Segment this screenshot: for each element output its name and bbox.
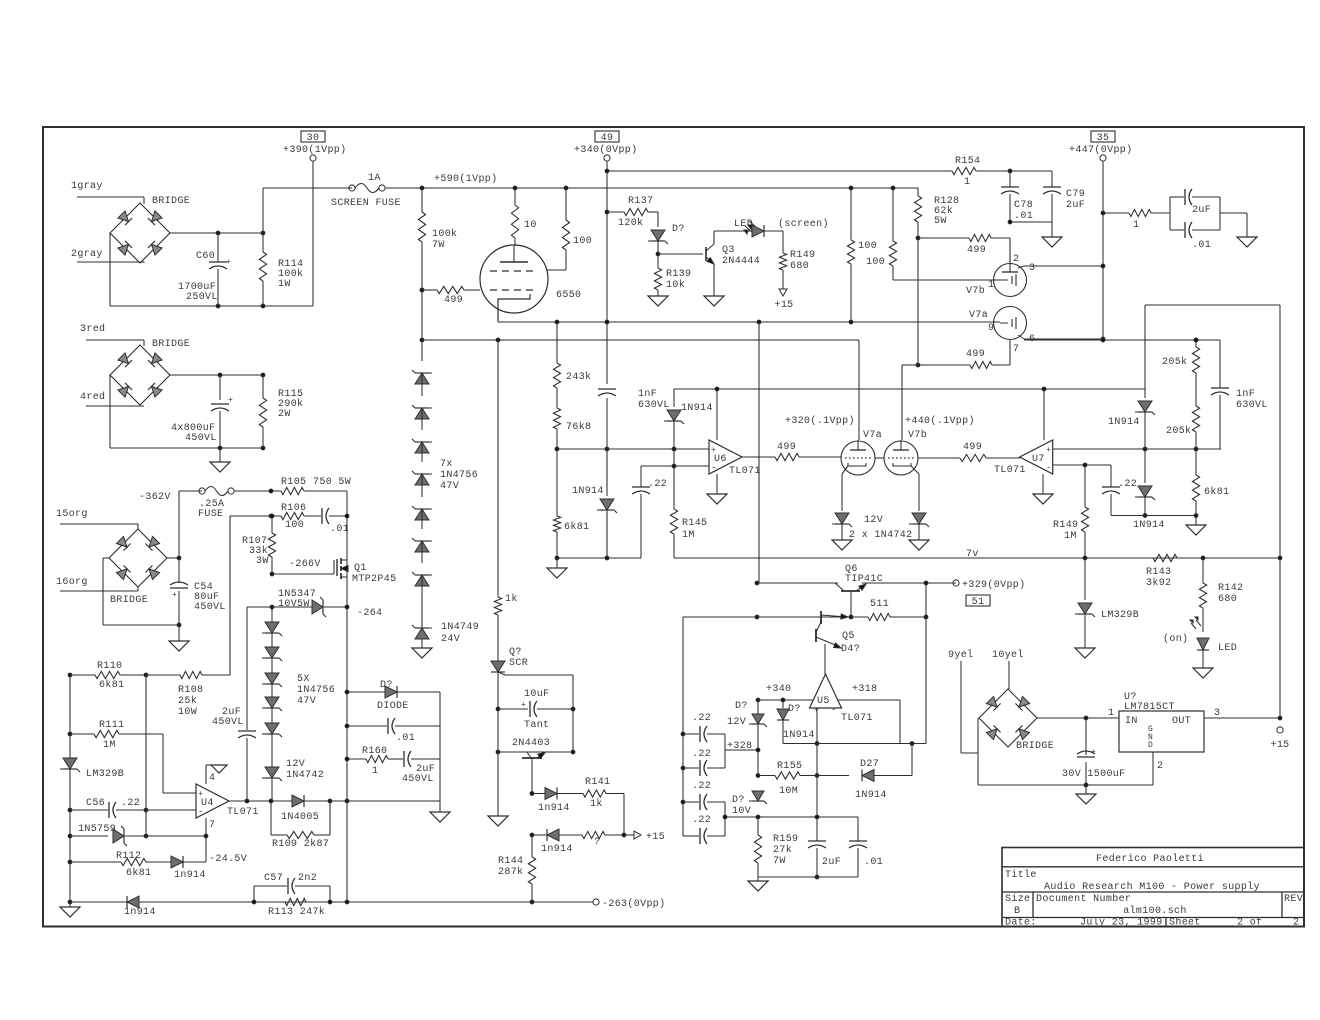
wire heater mid [875,457,884,459]
svg-text:750 5W: 750 5W [313,477,351,488]
resistor R142 680 [1201,556,1205,560]
svg-text:-: - [1046,463,1052,473]
wire bridge1 out [170,232,263,234]
wire +590 feed [263,187,352,189]
svg-text:7: 7 [209,820,215,831]
svg-text:LM329B: LM329B [86,769,124,780]
svg-text:+: + [711,446,716,455]
svg-text:R113 247k: R113 247k [268,906,325,918]
svg-text:9: 9 [988,323,994,334]
svg-text:-24.5V: -24.5V [209,854,247,865]
wire 2uF450 column [246,607,248,730]
svg-text:12V: 12V [864,515,883,526]
svg-text:+590(1Vpp): +590(1Vpp) [434,173,498,185]
svg-text:47V: 47V [297,696,316,707]
wire R141 row [530,792,534,796]
svg-text:R159: R159 [773,834,798,845]
svg-text:R141: R141 [585,777,610,788]
svg-text:.22: .22 [1118,479,1137,490]
wire +590 rail [385,187,918,189]
svg-text:630VL: 630VL [638,400,670,411]
resistor R139 10k [657,254,659,268]
wire +340 vertical [606,161,608,384]
svg-text:+318: +318 [852,684,877,695]
svg-text:BRIDGE: BRIDGE [110,595,148,606]
svg-text:243k: 243k [566,371,591,383]
capacitor C? 4x800uF 450VL [219,375,221,400]
wire box right rail [439,692,441,801]
capacitor 2uF (R159) [816,817,818,841]
svg-text:D?: D? [672,224,685,235]
wire U6 feedback top [674,388,1145,390]
wire 1k SCR column [497,340,499,597]
svg-text:C56: C56 [86,798,105,809]
wire x573 drop [572,709,574,752]
svg-text:.22: .22 [692,815,711,826]
svg-text:499: 499 [777,442,796,453]
svg-text:100: 100 [858,241,877,252]
svg-text:Size: Size [1005,893,1030,905]
svg-text:27k: 27k [773,844,792,856]
svg-text:10uF: 10uF [524,689,549,700]
svg-text:MTP2P45: MTP2P45 [352,574,396,585]
ground bottom left [69,902,71,907]
svg-text:51: 51 [972,597,985,608]
svg-text:1n914: 1n914 [174,870,206,881]
svg-text:-: - [831,705,837,715]
wire -266V gate [270,572,274,576]
svg-text:D?: D? [788,704,801,715]
wire U4 out to box [330,800,440,802]
svg-text:1N4756: 1N4756 [440,470,478,481]
svg-text:450VL: 450VL [194,602,226,613]
wire x347 long drop [346,607,348,902]
terminal -263(0Vpp) [345,900,349,904]
wire x926 drop2 [925,617,927,744]
op-amp U6 TL071 [709,440,742,474]
svg-text:D4?: D4? [841,644,860,655]
wire 10V row [725,816,858,818]
svg-text:.01: .01 [1192,240,1211,251]
wire U6 - input [641,465,709,467]
svg-text:BRIDGE: BRIDGE [1016,741,1054,752]
svg-text:.01: .01 [864,857,883,868]
ground C78/C79 [1042,237,1062,247]
svg-text:16org: 16org [56,577,88,588]
wire grid rail y340 [422,339,859,341]
ground Q3 [704,296,724,306]
ground V7a cathode [832,540,852,550]
svg-text:R110: R110 [97,661,122,672]
svg-text:R109 2k87: R109 2k87 [272,838,329,850]
wire +340 row [756,698,760,702]
svg-text:1N4756: 1N4756 [297,685,335,696]
resistor 499 (U6 out) [742,456,775,458]
svg-text:.01: .01 [1014,211,1033,222]
svg-text:6k81: 6k81 [99,679,124,691]
svg-text:V7a: V7a [863,430,882,441]
svg-text:TL071: TL071 [227,807,259,818]
svg-text:30: 30 [307,133,320,144]
ground LED [1193,668,1213,678]
op-amp U5 TL071 [810,674,842,708]
svg-text:3red: 3red [80,323,105,335]
svg-text:R160: R160 [362,746,387,757]
ground C54 [178,625,180,641]
svg-text:C60: C60 [196,251,215,262]
svg-text:+447(0Vpp): +447(0Vpp) [1069,144,1133,156]
net label 51 [966,595,990,606]
svg-text:LED: LED [1218,643,1237,654]
svg-text:D?: D? [735,701,748,712]
svg-text:R155: R155 [777,761,802,772]
svg-text:3k92: 3k92 [1146,577,1171,589]
svg-text:10yel: 10yel [992,649,1024,661]
svg-text:680: 680 [1218,594,1237,605]
svg-text:+15: +15 [774,300,793,311]
svg-text:FUSE: FUSE [198,509,223,520]
wire 7v left segment [557,557,641,559]
svg-text:1M: 1M [1064,531,1077,542]
wire y515 row [1111,515,1196,517]
svg-text:Federico Paoletti: Federico Paoletti [1096,853,1204,865]
svg-text:+320(.1Vpp): +320(.1Vpp) [785,415,855,427]
wire bridge4 neg rail [977,753,979,785]
wire R106 row [229,516,231,675]
wire pin2 V7b [1009,238,1011,262]
svg-text:100: 100 [573,236,592,247]
svg-text:+: + [226,258,231,267]
svg-text:6k81: 6k81 [1204,486,1229,498]
svg-text:6550: 6550 [556,290,581,301]
wire U6 + row [557,448,709,450]
svg-text:Document Number: Document Number [1036,893,1131,905]
wire U7 fb drop [1043,389,1045,440]
svg-text:OUT: OUT [1172,716,1191,727]
wire V7a cathode [841,474,843,511]
svg-text:TL071: TL071 [994,465,1026,476]
wire x498 to ground [497,709,499,752]
capacitor 1nF 630VL [598,388,616,390]
svg-text:R149: R149 [1053,520,1078,531]
resistor R149 1M (U7) [1084,465,1086,507]
wire x759 drop [758,322,760,583]
wire caps bottom [1010,221,1052,223]
tube V7b triode [994,264,1027,297]
resistor R137 120k [605,210,609,214]
op-amp U7 TL071 [1020,440,1053,474]
svg-text:2 of: 2 of [1237,917,1262,929]
svg-text:450VL: 450VL [402,774,434,785]
svg-text:12V: 12V [727,717,746,728]
wire bridge2 out [170,374,263,376]
svg-text:.22: .22 [648,479,667,490]
svg-text:V7a: V7a [969,310,988,321]
svg-text:+: + [198,790,203,799]
svg-text:499: 499 [963,442,982,453]
svg-text:+: + [172,591,177,600]
svg-text:2N4444: 2N4444 [722,256,760,267]
wire 511 row [683,616,757,618]
wire bridge4 out [1037,717,1119,719]
svg-text:1gray: 1gray [71,181,103,192]
zener D? Q3 base [657,212,659,227]
svg-text:120k: 120k [618,217,643,229]
svg-text:10V: 10V [732,806,751,817]
resistor R154 1 [952,167,976,174]
svg-text:24V: 24V [441,634,460,645]
svg-text:499: 499 [966,349,985,360]
svg-text:3: 3 [1029,263,1035,274]
svg-text:7W: 7W [432,240,445,251]
svg-text:C57: C57 [264,873,283,884]
svg-text:7v: 7v [966,549,979,560]
svg-text:1N914: 1N914 [681,403,713,414]
svg-text:7W: 7W [773,856,786,867]
wire x918 drop [917,238,919,365]
svg-text:450VL: 450VL [185,433,217,444]
wire bridge1 neg [109,233,111,306]
resistor R145 1M [672,464,676,468]
net label 35 [1091,131,1115,142]
wire U4 output row [229,800,292,802]
svg-text:R145: R145 [682,518,707,529]
svg-text:1N4749: 1N4749 [441,622,479,633]
wire U5 + drop [816,708,818,744]
wire V7b cathode [918,474,920,511]
svg-text:1k: 1k [590,798,603,810]
svg-text:+329(0Vpp): +329(0Vpp) [962,579,1026,591]
ground box [439,801,441,812]
svg-text:D: D [1148,741,1153,750]
wire U6 fb drop [716,389,718,440]
svg-text:1N5759: 1N5759 [78,824,116,835]
svg-text:450VL: 450VL [212,717,244,728]
transistor Q3 2N4444 [658,253,703,255]
bridge rectifier BR2 [110,345,170,405]
wire x926 drop [925,583,927,617]
svg-text:5X: 5X [297,674,310,685]
power +15 arrow (right) [624,834,634,836]
svg-text:499: 499 [967,245,986,256]
svg-text:D?: D? [732,795,745,806]
bridge rectifier BR1 [110,203,170,263]
ground zener chain [412,648,432,658]
title block frame [1002,848,1304,927]
svg-text:1W: 1W [278,279,291,290]
svg-text:1nF: 1nF [638,389,657,400]
resistor 499 grid [420,288,424,292]
svg-text:6k81: 6k81 [564,521,589,533]
svg-text:100: 100 [285,520,304,531]
wire R154 row [605,169,609,173]
svg-text:SCR: SCR [509,658,528,669]
net label 30 [301,131,325,142]
svg-text:1N914: 1N914 [572,486,604,497]
svg-text:Audio Research M100 - Power su: Audio Research M100 - Power supply [1044,881,1260,893]
capacitor .22 (U7) [1110,465,1112,487]
svg-text:10M: 10M [779,786,798,797]
svg-text:C79: C79 [1066,189,1085,200]
svg-text:287k: 287k [498,866,523,878]
wire OUT to +15 [1204,717,1280,719]
capacitor .01 (parallel) [1170,229,1184,231]
svg-text:Q3: Q3 [722,245,735,256]
svg-text:2: 2 [1157,761,1163,772]
wire bridge3 neg [103,557,109,559]
capacitor C54 80uF 450VL [178,558,180,583]
svg-text:49: 49 [601,133,614,144]
wire left rail x70 [69,675,71,902]
svg-text:BRIDGE: BRIDGE [152,339,190,350]
svg-text:1M: 1M [103,740,116,751]
svg-text:15org: 15org [56,509,88,520]
svg-text:-266V: -266V [289,559,321,570]
svg-text:(screen): (screen) [778,218,829,230]
wire +15 distribution [1145,304,1280,306]
tube V7a triode [994,307,1027,340]
svg-text:(on): (on) [1163,633,1188,645]
wire x817 drop [816,744,818,818]
capacitor C79 2uF [1051,171,1053,187]
svg-text:2n2: 2n2 [298,873,317,884]
net label 49 [595,131,619,142]
svg-text:1n914: 1n914 [541,844,573,855]
svg-text:250VL: 250VL [186,292,218,303]
svg-text:35: 35 [1097,133,1110,144]
svg-text:76k8: 76k8 [566,421,591,433]
svg-text:Q1: Q1 [354,563,367,574]
svg-text:Q?: Q? [509,647,522,658]
svg-text:1k: 1k [505,593,518,605]
ground U6 [716,474,718,494]
svg-text:R144: R144 [498,856,523,867]
svg-text:4: 4 [209,773,215,784]
svg-text:1N914: 1N914 [1133,520,1165,531]
svg-text:5W: 5W [934,216,947,227]
svg-text:-264: -264 [357,608,382,619]
svg-text:R111: R111 [99,720,124,731]
svg-text:+: + [1046,446,1051,455]
resistor R149 680 (led) [782,231,784,253]
svg-text:LM329B: LM329B [1101,610,1139,621]
svg-text:25k: 25k [178,695,197,707]
fuse 1A SCREEN FUSE [349,185,355,191]
svg-text:1M: 1M [682,530,695,541]
svg-text:100k: 100k [432,228,457,240]
resistor 10 plate [514,188,516,205]
resistor 76k8 [553,408,560,429]
ground y515 [1195,516,1197,526]
svg-text:6k81: 6k81 [126,867,151,879]
capacitor .01 [321,508,323,524]
svg-text:Title: Title [1005,869,1037,881]
svg-text:10V5W: 10V5W [278,599,310,610]
svg-text:.22: .22 [692,713,711,724]
resistor 100 (V7a heater) [892,188,894,241]
svg-text:1: 1 [1108,708,1114,719]
svg-text:10k: 10k [666,279,685,291]
zener 12V V7b [912,513,926,524]
resistor 1 (+447 filter) [1101,211,1105,215]
wire x859 drop +320 [858,340,860,440]
svg-text:+340(0Vpp): +340(0Vpp) [574,144,638,156]
ground R159 [757,877,759,881]
svg-text:V7b: V7b [966,285,985,297]
svg-text:-263(0Vpp): -263(0Vpp) [602,898,666,910]
wire x146 drop [145,675,147,836]
capacitor C78 .01 [1009,171,1011,187]
svg-text:1: 1 [1133,220,1139,231]
resistor 100 (V7b heater) [850,188,852,240]
wire V7b heater top [901,365,903,440]
svg-text:1N4005: 1N4005 [281,812,319,823]
svg-text:-: - [711,463,717,473]
svg-text:R139: R139 [666,269,691,280]
svg-text:2uF: 2uF [1192,205,1211,216]
svg-text:Q5: Q5 [842,631,855,642]
svg-text:2N4403: 2N4403 [512,738,550,749]
svg-text:1n914: 1n914 [124,907,156,918]
svg-text:+: + [521,701,526,710]
svg-text:10W: 10W [178,707,197,718]
svg-text:499: 499 [444,295,463,306]
ground bridge4 [1085,785,1087,794]
ground SCR [488,816,508,826]
ground U4 pin4 [211,765,227,773]
svg-text:1: 1 [372,766,378,777]
svg-text:1nF: 1nF [1236,389,1255,400]
wire 1N5759 row to pin7 [146,835,206,837]
svg-text:2uF: 2uF [1066,200,1085,211]
ground bridge2 [219,448,221,462]
svg-text:4red: 4red [80,391,105,403]
svg-text:12V: 12V [286,759,305,770]
svg-text:7x: 7x [440,459,453,470]
svg-text:2 x 1N4742: 2 x 1N4742 [849,530,913,541]
svg-text:IN: IN [1125,716,1138,727]
svg-text:1N4742: 1N4742 [286,770,324,781]
svg-text:2: 2 [1013,254,1019,265]
capacitor .22 (U6) [640,466,642,487]
zener 12V V7a [835,513,849,524]
svg-text:1A: 1A [368,173,381,184]
svg-text:47V: 47V [440,481,459,492]
svg-text:DIODE: DIODE [377,701,409,712]
svg-text:U7: U7 [1032,454,1045,465]
ground U7 [1042,474,1044,494]
svg-text:1N914: 1N914 [1108,417,1140,428]
resistor 511 [851,616,868,618]
wire bridge2 neg [109,375,111,448]
svg-text:Date:: Date: [1005,918,1037,929]
wire pin1 V7b [893,279,994,281]
svg-text:+15: +15 [1270,740,1289,751]
ground LM329B [1075,648,1095,658]
svg-text:TL071: TL071 [841,713,873,724]
resistor 499 (U7 in) [918,457,960,459]
svg-text:2uF: 2uF [822,857,841,868]
svg-text:+440(.1Vpp): +440(.1Vpp) [905,415,975,427]
svg-text:511: 511 [870,599,889,610]
wire bottom row y902 [68,900,72,904]
svg-text:100: 100 [866,257,885,268]
resistor 6k81 (U7) [1195,449,1197,475]
wire C56 to U4- [146,809,196,811]
svg-text:30V 1500uF: 30V 1500uF [1062,769,1126,780]
ground filter [1237,237,1257,247]
svg-text:2gray: 2gray [71,249,103,260]
